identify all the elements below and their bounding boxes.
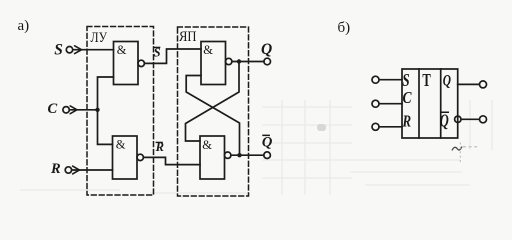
svg-text:S: S: [402, 70, 409, 90]
svg-text:&: &: [202, 138, 212, 152]
svg-text:а): а): [18, 18, 30, 34]
svg-text:C: C: [48, 101, 58, 117]
svg-text:S: S: [154, 45, 161, 59]
svg-text:C: C: [403, 88, 413, 107]
svg-text:R: R: [155, 140, 164, 154]
svg-text:б): б): [338, 20, 351, 36]
svg-text:R: R: [402, 111, 411, 130]
svg-text:R: R: [50, 161, 61, 177]
svg-text:Q: Q: [261, 41, 272, 58]
svg-text:Q: Q: [443, 73, 452, 90]
svg-text:ЛУ: ЛУ: [91, 30, 108, 46]
svg-text:T: T: [422, 70, 430, 90]
svg-text:&: &: [203, 43, 213, 57]
svg-text:S: S: [54, 41, 63, 58]
svg-text:&: &: [116, 138, 126, 152]
svg-text:&: &: [117, 43, 127, 57]
svg-text:ЯП: ЯП: [179, 29, 197, 45]
svg-text:Q: Q: [262, 135, 273, 151]
svg-text:Q: Q: [440, 110, 449, 130]
